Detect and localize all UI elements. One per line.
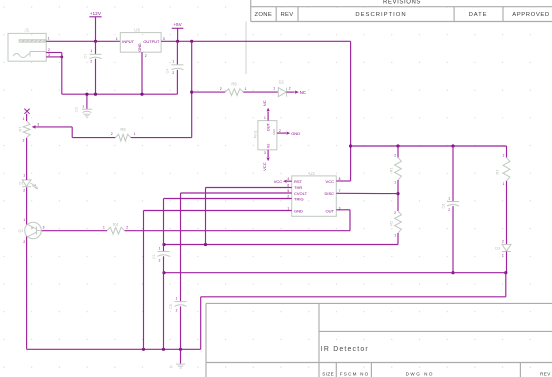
wire R2 bottom xyxy=(164,233,398,245)
svg-text:1: 1 xyxy=(448,196,450,200)
svg-text:R1: R1 xyxy=(389,167,394,173)
resistor R8 xyxy=(115,127,130,141)
svg-text:DESCRIPTION: DESCRIPTION xyxy=(355,12,406,18)
svg-text:R4: R4 xyxy=(113,222,119,227)
capacitor C7 xyxy=(84,54,102,59)
svg-text:1: 1 xyxy=(23,173,25,177)
R8 pin 1 xyxy=(134,132,136,136)
capacitor C1 xyxy=(152,252,169,350)
junction output node xyxy=(504,271,507,274)
wire J1 pin2 stub xyxy=(46,52,62,54)
svg-text:+12V: +12V xyxy=(90,11,101,16)
capacitor C2 xyxy=(75,107,92,112)
C2 pin 1 xyxy=(82,105,84,109)
svg-text:2: 2 xyxy=(176,308,178,312)
svg-text:1: 1 xyxy=(159,247,161,251)
svg-text:2: 2 xyxy=(159,258,161,262)
D1 pin 2 xyxy=(23,189,25,193)
R7 pin 2 xyxy=(23,138,25,142)
svg-text:1: 1 xyxy=(245,87,247,91)
svg-text:GND: GND xyxy=(291,131,300,136)
svg-text:D3: D3 xyxy=(495,246,501,251)
junction C6 top xyxy=(451,144,454,147)
junction C7 bus xyxy=(94,93,97,96)
R3 pin 1 xyxy=(503,182,505,186)
svg-text:D1: D1 xyxy=(19,180,25,185)
svg-text:1: 1 xyxy=(394,233,396,237)
svg-text:1: 1 xyxy=(116,37,118,41)
wire pot to D1 xyxy=(26,138,28,180)
wire R7 wiper xyxy=(37,127,72,138)
svg-text:OUTPUT: OUTPUT xyxy=(143,39,160,44)
revisions table xyxy=(251,0,552,22)
junction J1 pins 2-3 xyxy=(60,56,63,59)
wire J1 pin1 to U5 input xyxy=(46,40,120,42)
svg-text:2: 2 xyxy=(503,153,505,157)
svg-text:2: 2 xyxy=(289,87,291,91)
wire D3 to node xyxy=(506,252,508,273)
R6 pin 1 xyxy=(245,87,247,91)
R1 pin 1 xyxy=(394,181,396,185)
U2 pin 1 xyxy=(287,206,289,210)
wire CVOLT net xyxy=(181,193,292,301)
junction C5 bottom xyxy=(179,348,182,351)
wire D2 to NC xyxy=(287,91,295,93)
label U5 xyxy=(134,27,140,32)
svg-text:DWG NO: DWG NO xyxy=(406,372,434,377)
Pm1 pin 3 xyxy=(264,151,266,155)
wire R4 to Q1 base xyxy=(41,230,107,232)
module Pm1 xyxy=(253,121,277,150)
J1 pin 3 xyxy=(48,53,50,57)
svg-text:1: 1 xyxy=(23,117,25,121)
svg-text:GND: GND xyxy=(294,208,303,213)
junction R6 tap xyxy=(190,40,193,43)
resistor R3 xyxy=(494,158,510,182)
svg-text:CVOLT: CVOLT xyxy=(294,191,308,196)
capacitor C6 xyxy=(442,146,460,273)
svg-text:1: 1 xyxy=(176,297,178,301)
C6 pin 1 xyxy=(448,196,450,200)
svg-text:1: 1 xyxy=(503,182,505,186)
wire OUT net xyxy=(125,210,351,231)
svg-text:2: 2 xyxy=(23,189,25,193)
diode D3 xyxy=(495,244,511,251)
svg-text:2: 2 xyxy=(448,208,450,212)
wire TRIG net xyxy=(164,199,292,252)
junction VCC branch y146 xyxy=(349,144,352,147)
U5 pin 3 xyxy=(163,37,165,41)
net arrow VCC at RST xyxy=(274,179,292,184)
svg-text:VCC: VCC xyxy=(326,179,335,184)
power +12V xyxy=(89,11,101,42)
svg-text:Q1: Q1 xyxy=(18,228,24,233)
svg-text:J1: J1 xyxy=(25,28,30,33)
svg-text:Vs: Vs xyxy=(267,144,271,149)
wire R8 to +5V drop xyxy=(131,137,192,139)
svg-text:ZONE: ZONE xyxy=(255,12,273,18)
svg-text:1: 1 xyxy=(287,206,289,210)
svg-text:1: 1 xyxy=(90,49,92,53)
svg-text:3: 3 xyxy=(37,122,39,126)
junction C1 bottom xyxy=(162,348,165,351)
wire +5V branch y146 xyxy=(351,145,507,147)
svg-text:SIZE: SIZE xyxy=(322,372,334,377)
svg-text:U2: U2 xyxy=(309,171,315,176)
svg-text:2: 2 xyxy=(279,129,281,133)
C4 pin 2 xyxy=(172,71,174,75)
svg-text:7: 7 xyxy=(339,189,341,193)
net arrow VCC below Pm1 xyxy=(262,158,270,171)
wire C7 to ground bus xyxy=(95,59,97,94)
svg-text:R3: R3 xyxy=(494,169,499,175)
svg-text:U5: U5 xyxy=(134,27,140,32)
junction R6 branch xyxy=(190,91,193,94)
svg-text:DATE: DATE xyxy=(469,12,488,18)
R6 pin 2 xyxy=(220,87,222,91)
svg-text:+5V: +5V xyxy=(173,22,182,27)
diode D2 xyxy=(278,79,286,96)
capacitor C5 xyxy=(169,302,186,350)
ground symbol xyxy=(170,364,185,369)
wire R1 top xyxy=(397,146,399,158)
connector J1 xyxy=(8,33,46,61)
U2 pin 8 xyxy=(339,177,341,181)
wire ground stub xyxy=(180,349,182,364)
svg-text:1: 1 xyxy=(23,218,25,222)
wire Q1 collector xyxy=(26,187,28,224)
junction THR node xyxy=(204,243,207,246)
label U2 xyxy=(309,171,315,176)
wire R3 branch xyxy=(506,146,508,158)
Q1 pin 1 xyxy=(23,218,25,222)
diode D1 xyxy=(19,180,38,189)
wire R6 to D2 xyxy=(243,91,278,93)
svg-text:3: 3 xyxy=(264,151,266,155)
R1 pin 2 xyxy=(394,153,396,157)
U2 pin 6 xyxy=(287,183,289,187)
svg-text:Pm1: Pm1 xyxy=(253,129,258,138)
R3 pin 2 xyxy=(503,153,505,157)
R2 pin 2 xyxy=(394,211,396,215)
J1 pin 2 xyxy=(48,48,50,52)
wire left riser xyxy=(200,297,202,350)
capacitor C4 xyxy=(166,41,184,94)
wire GND555 net xyxy=(144,211,292,350)
net arrow NC above Pm1 xyxy=(262,100,270,111)
svg-text:1: 1 xyxy=(48,37,50,41)
D2 pin 1 xyxy=(273,87,275,91)
svg-text:C5: C5 xyxy=(169,304,173,309)
svg-text:R7: R7 xyxy=(17,126,22,132)
wire J1 ground drop xyxy=(62,53,178,95)
wire THR net xyxy=(206,188,292,245)
wire node down xyxy=(201,273,506,297)
svg-text:1: 1 xyxy=(273,87,275,91)
svg-text:6: 6 xyxy=(287,183,289,187)
svg-text:GND: GND xyxy=(138,43,142,52)
C7 pin 1 xyxy=(90,49,92,53)
power +5V xyxy=(172,22,184,41)
wire U5 gnd to bus xyxy=(141,52,143,94)
Pm1 pin 2 xyxy=(279,129,281,133)
svg-text:GND: GND xyxy=(272,129,276,135)
wire rail to C7 xyxy=(95,41,97,54)
wire Q1 emitter xyxy=(26,237,28,350)
wire DISC xyxy=(336,192,398,194)
junction +12V rail xyxy=(94,40,97,43)
svg-text:1: 1 xyxy=(82,105,84,109)
svg-text:2: 2 xyxy=(48,48,50,52)
U5 pin 1 xyxy=(116,37,118,41)
C6 pin 2 xyxy=(448,208,450,212)
regulator U5 xyxy=(120,33,161,53)
R4 pin 1 xyxy=(103,225,105,229)
wire +5V to R6 drop xyxy=(191,41,193,137)
svg-text:1: 1 xyxy=(172,59,174,63)
svg-text:OUT: OUT xyxy=(326,208,335,213)
junction DISC node xyxy=(396,192,399,195)
wire R1 to R2 xyxy=(397,180,399,211)
D2 pin 2 xyxy=(289,87,291,91)
J1 pin 1 xyxy=(48,37,50,41)
svg-text:2: 2 xyxy=(502,240,504,244)
net arrow GND at Pm1 xyxy=(287,131,301,136)
C7 pin 2 xyxy=(90,60,92,64)
svg-text:1: 1 xyxy=(134,132,136,136)
svg-text:DISC: DISC xyxy=(324,191,334,196)
label J1 xyxy=(25,28,30,33)
wire X to R7 xyxy=(26,114,28,121)
U2 pin 3 xyxy=(339,206,341,210)
U2 pin 4 xyxy=(287,177,289,181)
wire R3 to D3 xyxy=(506,181,508,244)
svg-text:4: 4 xyxy=(287,177,289,181)
potentiometer R7 xyxy=(17,121,37,138)
svg-text:3: 3 xyxy=(163,37,165,41)
no-connect X at R7 xyxy=(24,109,29,114)
svg-text:APPROVED: APPROVED xyxy=(512,12,550,18)
resistor R1 xyxy=(389,158,402,181)
R2 pin 1 xyxy=(394,233,396,237)
svg-text:8: 8 xyxy=(339,177,341,181)
C5 pin 1 xyxy=(176,297,178,301)
svg-text:C1: C1 xyxy=(152,254,156,259)
Q1 pin 3 xyxy=(43,226,45,230)
svg-text:2: 2 xyxy=(111,132,113,136)
U2 pin 2 xyxy=(287,194,289,198)
svg-text:2: 2 xyxy=(172,71,174,75)
D3 pin 2 xyxy=(502,240,504,244)
C1 pin 1 xyxy=(159,247,161,251)
Pm1 pin 1 xyxy=(264,116,266,120)
C1 pin 2 xyxy=(159,258,161,262)
ground under C2 xyxy=(83,114,90,117)
R8 pin 2 xyxy=(111,132,113,136)
svg-text:R8: R8 xyxy=(120,127,126,132)
svg-text:OUT: OUT xyxy=(267,123,271,132)
wire VCC pin to +5V xyxy=(336,180,350,182)
timer U2 xyxy=(292,176,337,216)
C4 pin 1 xyxy=(172,59,174,63)
svg-text:D2: D2 xyxy=(279,79,285,84)
resistor R4 xyxy=(107,222,125,234)
wire bus to C2 xyxy=(86,94,88,109)
wire wiper to R8 xyxy=(72,137,115,139)
sheet zone border xyxy=(245,22,247,75)
svg-text:3: 3 xyxy=(43,226,45,230)
junction C2 tap xyxy=(85,93,88,96)
Q1 pin 2 xyxy=(23,240,25,244)
svg-text:C2: C2 xyxy=(75,107,79,112)
svg-text:NC: NC xyxy=(300,90,306,95)
svg-text:REVISIONS: REVISIONS xyxy=(383,0,421,5)
wire U5 output rail xyxy=(161,41,351,181)
D1 pin 1 xyxy=(23,173,25,177)
svg-text:REV: REV xyxy=(280,12,293,18)
svg-text:2: 2 xyxy=(23,240,25,244)
junction TRIG node xyxy=(162,243,165,246)
wire Pm1 out xyxy=(267,112,269,121)
svg-text:2: 2 xyxy=(126,225,128,229)
svg-text:2: 2 xyxy=(90,60,92,64)
svg-text:2: 2 xyxy=(394,211,396,215)
svg-text:C7: C7 xyxy=(84,54,88,59)
C5 pin 2 xyxy=(176,308,178,312)
resistor R2 xyxy=(389,211,402,233)
svg-text:2: 2 xyxy=(394,153,396,157)
R7 pin 1 xyxy=(23,117,25,121)
svg-text:R6: R6 xyxy=(231,82,237,87)
svg-text:2: 2 xyxy=(220,87,222,91)
svg-text:C4: C4 xyxy=(166,69,170,74)
svg-text:TRIG: TRIG xyxy=(294,196,304,201)
svg-text:IR Detector: IR Detector xyxy=(321,346,369,353)
svg-text:INPUT: INPUT xyxy=(122,39,134,44)
U2 pin 5 xyxy=(287,189,289,193)
wire to R6 xyxy=(192,91,226,93)
svg-text:2: 2 xyxy=(145,54,147,58)
svg-text:1: 1 xyxy=(103,225,105,229)
wire node row xyxy=(164,272,506,274)
junction +5V rail xyxy=(176,40,179,43)
junction C6 bottom xyxy=(451,271,454,274)
svg-text:1: 1 xyxy=(502,254,504,258)
svg-text:5: 5 xyxy=(287,189,289,193)
junction U5 gnd bus xyxy=(140,93,143,96)
svg-text:REV: REV xyxy=(540,372,551,377)
svg-text:R2: R2 xyxy=(389,220,394,226)
svg-text:2: 2 xyxy=(287,194,289,198)
svg-text:1: 1 xyxy=(264,116,266,120)
svg-text:FSCM NO: FSCM NO xyxy=(340,372,370,377)
title block xyxy=(206,303,552,377)
svg-text:1: 1 xyxy=(394,181,396,185)
junction R1 top xyxy=(396,144,399,147)
svg-text:THR: THR xyxy=(294,185,302,190)
wire Pm1 gnd xyxy=(277,132,286,134)
no-connect NC at D2 xyxy=(295,90,306,95)
junction C1 bottom tap xyxy=(162,271,165,274)
svg-text:2: 2 xyxy=(23,138,25,142)
junction GND555 bottom xyxy=(142,348,145,351)
svg-text:NC: NC xyxy=(262,100,267,106)
svg-text:C6: C6 xyxy=(442,204,446,209)
svg-text:VCC: VCC xyxy=(262,162,267,171)
R4 pin 2 xyxy=(126,225,128,229)
transistor Q1 xyxy=(18,222,41,239)
R7 pin 3 xyxy=(37,122,39,126)
resistor R6 xyxy=(225,82,243,96)
svg-text:VCC: VCC xyxy=(274,179,283,184)
U5 pin 2 xyxy=(145,54,147,58)
D3 pin 1 xyxy=(502,254,504,258)
U2 pin 7 xyxy=(339,189,341,193)
svg-text:RST: RST xyxy=(294,179,303,184)
wire Pm1 vs xyxy=(267,150,269,157)
wire bottom row xyxy=(27,348,201,350)
wire J1 pin3 stub xyxy=(46,56,62,58)
